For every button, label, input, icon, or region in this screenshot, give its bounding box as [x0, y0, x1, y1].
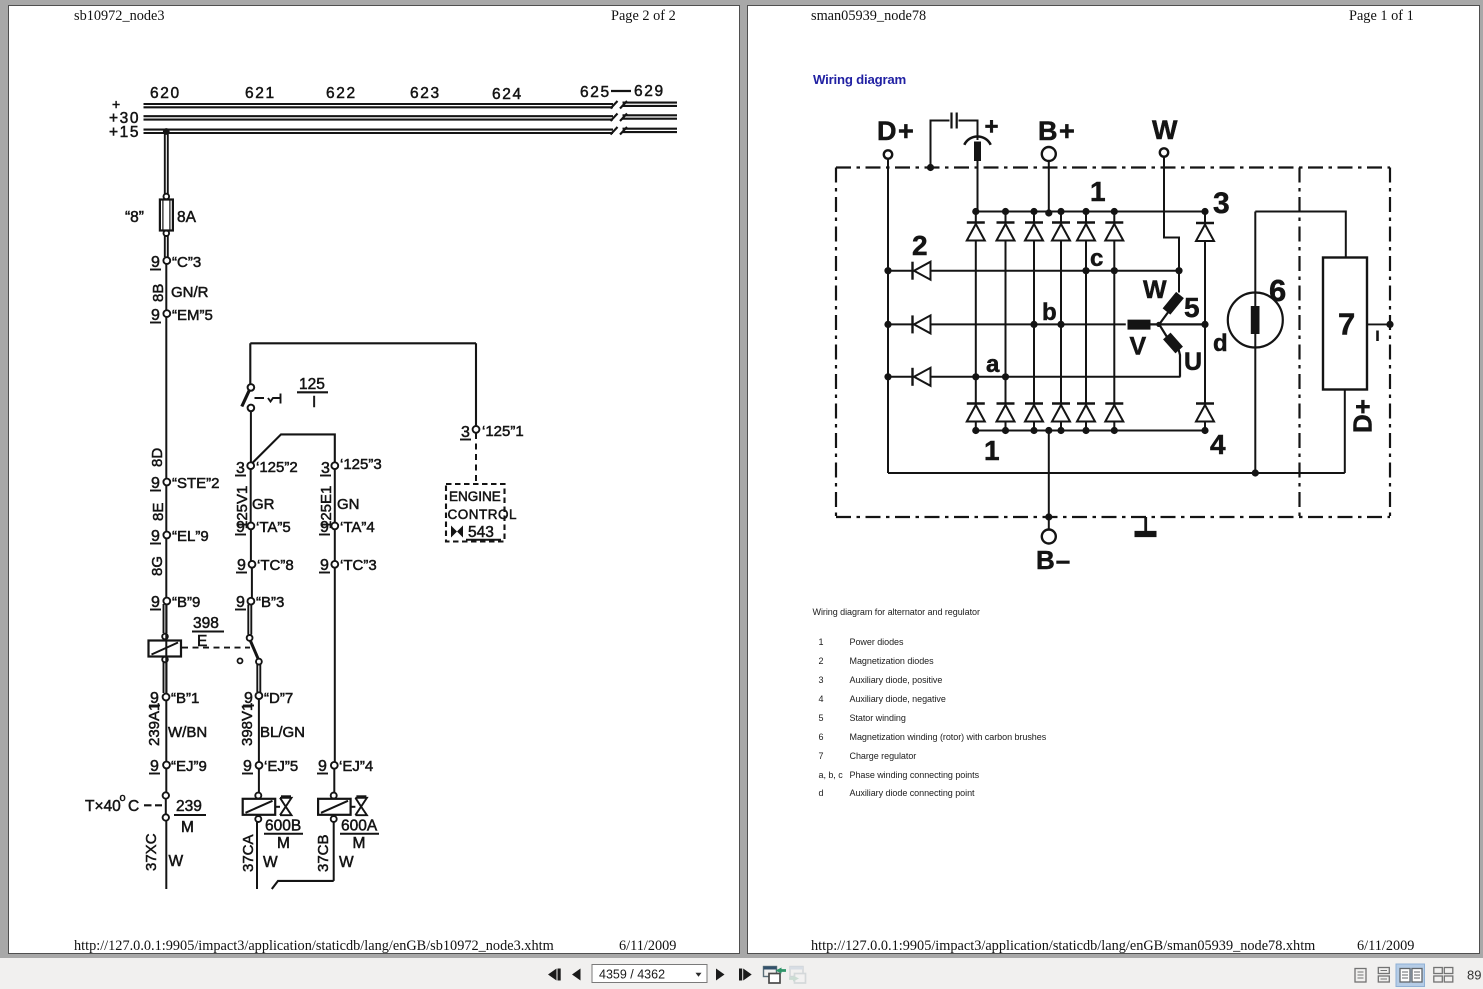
single page view icon	[1355, 969, 1366, 983]
two page view icon (active)	[1396, 964, 1425, 987]
svg-text:D+: D+	[877, 116, 915, 146]
bus break marks	[611, 101, 628, 135]
B- wire	[1048, 431, 1050, 530]
svg-text:9: 9	[318, 758, 327, 775]
svg-text:b: b	[1042, 299, 1057, 326]
svg-text:D+: D+	[1348, 399, 1378, 433]
svg-text:“B”9: “B”9	[172, 594, 200, 611]
svg-text:‘125”1: ‘125”1	[482, 423, 524, 440]
auxiliary diode column	[1204, 212, 1206, 431]
terminal 9 "STE"2	[150, 475, 220, 492]
svg-text:9: 9	[151, 307, 160, 324]
last page button	[739, 969, 752, 981]
col3 vertical wire	[334, 469, 335, 881]
svg-text:6: 6	[1269, 273, 1286, 308]
bus labels 620-629	[109, 83, 665, 141]
magnetization diode Ma	[913, 368, 931, 386]
terminal 9 TC"8	[236, 557, 294, 574]
svg-text:“B”1: “B”1	[171, 690, 199, 707]
svg-text:+15: +15	[109, 124, 140, 141]
svg-text:543: 543	[468, 524, 494, 541]
svg-text:9: 9	[151, 594, 160, 611]
svg-text:“B”3: “B”3	[256, 594, 284, 611]
terminal 9 "B"9	[150, 594, 200, 611]
svg-text:GN: GN	[337, 496, 360, 513]
terminal 9 "B"3	[235, 594, 284, 611]
bus rail +15 (double line)	[144, 129, 678, 133]
wire col1 main vertical	[165, 264, 167, 889]
solenoid valve 600A	[318, 793, 367, 822]
terminal 9 "EL"9	[150, 528, 209, 545]
svg-text:8A: 8A	[177, 209, 197, 226]
negative diode bus	[976, 430, 1205, 432]
svg-text:629: 629	[634, 83, 665, 100]
phase column W2	[1113, 212, 1115, 431]
diode D3t	[1025, 223, 1043, 241]
dash between 625 and 629	[611, 90, 631, 92]
svg-text:GN/R: GN/R	[171, 284, 209, 301]
svg-text:‘125”3: ‘125”3	[340, 456, 382, 473]
headers / footers	[74, 8, 165, 25]
ground symbol	[1144, 517, 1147, 532]
diode D5t	[1077, 223, 1095, 241]
svg-text:‘125”2: ‘125”2	[256, 459, 298, 476]
svg-text:3: 3	[236, 460, 245, 477]
svg-text:620: 620	[150, 85, 181, 102]
regulator sense wire	[1367, 323, 1390, 325]
diode D4t	[1052, 223, 1070, 241]
svg-text:a: a	[986, 351, 1000, 378]
first page button	[548, 969, 561, 981]
bottom toolbar	[0, 958, 1483, 989]
svg-text:BL/GN: BL/GN	[260, 724, 305, 741]
svg-text:o: o	[120, 792, 126, 804]
diode D1b	[967, 404, 985, 422]
terminal 9 "EM"5	[150, 307, 213, 324]
top feed wire from switch circuit	[250, 343, 476, 384]
svg-text:‘EJ”5: ‘EJ”5	[264, 758, 298, 775]
svg-text:9: 9	[237, 557, 246, 574]
housing bottom	[836, 516, 1390, 518]
bottom frame wire	[888, 472, 1345, 474]
svg-text:“D”7: “D”7	[264, 690, 293, 707]
magnetization diode row a	[888, 376, 1181, 378]
relay coil K398 feed (double wire)	[164, 604, 167, 693]
node row b / column V2	[1057, 321, 1064, 328]
svg-text:1: 1	[1090, 176, 1106, 207]
svg-text:5: 5	[1184, 292, 1200, 323]
terminal B-	[1042, 530, 1056, 544]
fuse 8A	[160, 194, 173, 257]
D+ feed wire	[887, 159, 889, 473]
svg-text:125: 125	[299, 376, 325, 393]
stator winding W leg	[1167, 295, 1181, 312]
diode D2t	[997, 223, 1015, 241]
node row a / column U2	[1002, 373, 1009, 380]
svg-text:9: 9	[320, 557, 329, 574]
phase column U1	[975, 212, 977, 431]
svg-text:9: 9	[236, 594, 245, 611]
col2 vertical wire	[251, 469, 252, 604]
node row c / column W1	[1082, 267, 1089, 274]
terminal 9 EJ"5	[242, 758, 298, 775]
phase column V1	[1033, 212, 1035, 431]
svg-text:398V1: 398V1	[239, 703, 256, 746]
svg-text:W: W	[1152, 115, 1178, 145]
svg-text:239: 239	[176, 798, 202, 815]
magnetization diode row c	[888, 270, 1179, 272]
diode D6b	[1105, 404, 1123, 422]
polarity tick	[1376, 331, 1379, 342]
svg-text:V: V	[1130, 333, 1147, 361]
top bus nodes	[972, 208, 1208, 217]
auxiliary diode positive (3)	[1196, 223, 1214, 241]
svg-text:c: c	[1090, 245, 1103, 272]
alternator housing border (dash-dot)	[836, 168, 1390, 518]
svg-text:B–: B–	[1036, 545, 1071, 575]
diode D3b	[1025, 404, 1043, 422]
svg-text:C: C	[128, 798, 139, 815]
suppression capacitor	[931, 113, 978, 167]
svg-text:4359 / 4362: 4359 / 4362	[599, 968, 665, 982]
svg-text:9: 9	[320, 519, 329, 536]
blue heading	[813, 72, 906, 87]
node D+/row b	[884, 321, 891, 328]
svg-text:U: U	[1184, 348, 1202, 376]
svg-text:+: +	[985, 114, 999, 141]
switch contact under B"3 (double wire)	[248, 605, 260, 693]
terminal 9 TA"5	[235, 519, 291, 536]
svg-text:3: 3	[1213, 187, 1230, 220]
svg-text:9: 9	[236, 519, 245, 536]
terminal 3 125"1	[460, 423, 524, 441]
node rotor/bottom wire	[1252, 469, 1259, 476]
terminal 9 TA"4	[319, 519, 375, 536]
svg-text:‘TC”8: ‘TC”8	[257, 557, 294, 574]
auxiliary diode negative (4)	[1196, 404, 1214, 422]
brush / slip ring	[964, 136, 990, 210]
svg-text:‘TA”4: ‘TA”4	[340, 519, 375, 536]
phase column W1	[1085, 212, 1087, 431]
svg-text:“8”: “8”	[125, 209, 144, 226]
svg-text:d: d	[1213, 330, 1228, 357]
svg-text:8G: 8G	[149, 556, 166, 576]
col2 lower vertical	[257, 699, 259, 889]
svg-text:9: 9	[151, 254, 160, 271]
node D+/row c	[884, 267, 891, 274]
charge regulator (7) box	[1323, 258, 1367, 390]
relay coil box	[149, 634, 182, 663]
power diodes bottom row (1)	[967, 404, 1124, 422]
svg-text:‘TA”5: ‘TA”5	[256, 519, 291, 536]
svg-text:624: 624	[492, 86, 523, 103]
continuous view icon	[1378, 968, 1389, 983]
svg-text:9: 9	[151, 528, 160, 545]
svg-text:W/BN: W/BN	[168, 724, 207, 741]
previous view button	[764, 967, 787, 984]
phase column U2	[1005, 212, 1007, 431]
switch 125/I	[242, 384, 281, 462]
wire (double) from +15 rail down to fuse	[165, 134, 168, 194]
svg-text:37XC: 37XC	[143, 833, 160, 871]
thermo switch T>40C	[85, 792, 169, 821]
dashed wire to engine control	[475, 433, 477, 483]
svg-text:W: W	[339, 854, 354, 871]
dashed link relay to switch	[182, 647, 250, 649]
svg-text:37CB: 37CB	[315, 834, 332, 872]
terminal 9 "D"7	[243, 690, 293, 707]
svg-text:ENGINE: ENGINE	[449, 489, 501, 504]
terminal 9 TC"3	[319, 557, 377, 574]
terminal B+	[1042, 147, 1056, 161]
diode D6t	[1105, 223, 1123, 241]
terminal 9 "C"3	[150, 254, 201, 271]
W wire with jog	[1164, 157, 1179, 293]
svg-text:622: 622	[326, 85, 357, 102]
svg-text:4: 4	[1210, 429, 1226, 460]
two page continuous icon	[1434, 968, 1453, 983]
svg-text:600A: 600A	[341, 818, 378, 835]
node row c / column W2	[1111, 267, 1118, 274]
terminal 9 EJ"9	[149, 758, 207, 775]
svg-text:623: 623	[410, 85, 441, 102]
terminal 3 125"2	[235, 459, 298, 477]
svg-text:I: I	[312, 394, 316, 411]
stator winding U leg	[1167, 336, 1179, 350]
svg-text:3: 3	[461, 424, 470, 441]
svg-text:“EJ”9: “EJ”9	[171, 758, 207, 775]
svg-text:9: 9	[150, 758, 159, 775]
positive diode bus	[976, 211, 1205, 213]
wire 125"2 to 125"3 bridge	[253, 434, 335, 462]
terminal W	[1160, 148, 1168, 156]
next view button (disabled)	[789, 967, 806, 984]
svg-text:3: 3	[321, 460, 330, 477]
svg-text:M: M	[277, 835, 290, 852]
svg-text:1: 1	[984, 435, 1000, 466]
magnetization diode row b	[888, 323, 1126, 325]
svg-text:B+: B+	[1038, 116, 1076, 146]
svg-text:8E: 8E	[150, 503, 167, 521]
next page button	[716, 969, 725, 981]
rotor feed wires	[1255, 212, 1346, 474]
terminal D+	[884, 150, 892, 158]
node row a / column U1	[972, 373, 979, 380]
power diodes top row (1)	[967, 223, 1124, 241]
wire down to 125"1	[475, 343, 477, 426]
svg-text:W: W	[169, 853, 184, 870]
diode D2b	[997, 404, 1015, 422]
regulator partition	[1298, 168, 1300, 518]
node d / aux column	[1201, 321, 1208, 328]
svg-text:8D: 8D	[149, 448, 166, 467]
svg-text:625: 625	[580, 84, 611, 101]
page number box	[592, 965, 707, 983]
housing top	[836, 166, 1390, 168]
bus rail +30 (double line)	[144, 115, 678, 119]
connector symbol and 543	[451, 526, 463, 538]
terminal 3 125"3	[320, 456, 382, 477]
node D+/row a	[884, 373, 891, 380]
rotor brush bar	[1251, 306, 1260, 334]
solenoid valve 600B	[243, 793, 292, 822]
svg-text:600B: 600B	[265, 818, 301, 835]
svg-text:W: W	[263, 854, 278, 871]
svg-text:W: W	[1143, 276, 1167, 304]
svg-text:“C”3: “C”3	[172, 254, 201, 271]
magnetization diode Mb	[913, 315, 931, 333]
diode D4b	[1052, 404, 1070, 422]
B+ wire	[1048, 161, 1050, 212]
svg-text:CONTROL: CONTROL	[448, 507, 518, 522]
svg-text:37CA: 37CA	[240, 834, 257, 872]
svg-text:“STE”2: “STE”2	[172, 475, 220, 492]
svg-text:7: 7	[1338, 307, 1355, 342]
diode D5b	[1077, 404, 1095, 422]
star point connections	[1150, 311, 1205, 377]
svg-text:T×40: T×40	[85, 798, 121, 815]
svg-text:398: 398	[193, 615, 219, 632]
svg-text:239A1: 239A1	[146, 703, 163, 746]
housing left	[835, 168, 837, 518]
node B-/housing	[1045, 513, 1052, 520]
bottom link wire col3	[272, 881, 334, 889]
magnetization diode Mc	[913, 262, 931, 280]
rotor winding (6) circle	[1228, 293, 1283, 348]
diode D1t	[967, 223, 985, 241]
terminal 9 "B"1	[149, 690, 199, 707]
node capacitor to housing	[927, 164, 934, 171]
svg-text:89: 89	[1467, 968, 1481, 983]
svg-text:9: 9	[243, 758, 252, 775]
svg-text:M: M	[353, 835, 366, 852]
junction node on +15 rail	[163, 128, 170, 135]
previous page button	[572, 969, 581, 981]
bottom bus nodes	[972, 427, 1208, 434]
node row b / column V1	[1030, 321, 1037, 328]
svg-text:9: 9	[151, 475, 160, 492]
svg-text:“EL”9: “EL”9	[172, 528, 209, 545]
legend caption	[813, 607, 980, 617]
svg-text:621: 621	[245, 85, 276, 102]
node sense/housing	[1386, 321, 1393, 328]
svg-text:‘EJ”4: ‘EJ”4	[339, 758, 373, 775]
housing right	[1389, 168, 1391, 518]
phase column V2	[1060, 212, 1062, 431]
bus rail + (double line)	[144, 103, 678, 108]
svg-text:GR: GR	[252, 496, 275, 513]
svg-text:“EM”5: “EM”5	[172, 307, 213, 324]
stator winding V leg	[1128, 320, 1151, 330]
svg-text:‘TC”3: ‘TC”3	[340, 557, 377, 574]
engine control unit box (dashed)	[446, 484, 505, 542]
svg-text:8B: 8B	[150, 284, 167, 302]
node W/row c	[1175, 267, 1182, 274]
svg-text:2: 2	[912, 230, 928, 261]
terminal 9 EJ"4	[317, 758, 373, 775]
svg-text:M: M	[181, 819, 194, 836]
